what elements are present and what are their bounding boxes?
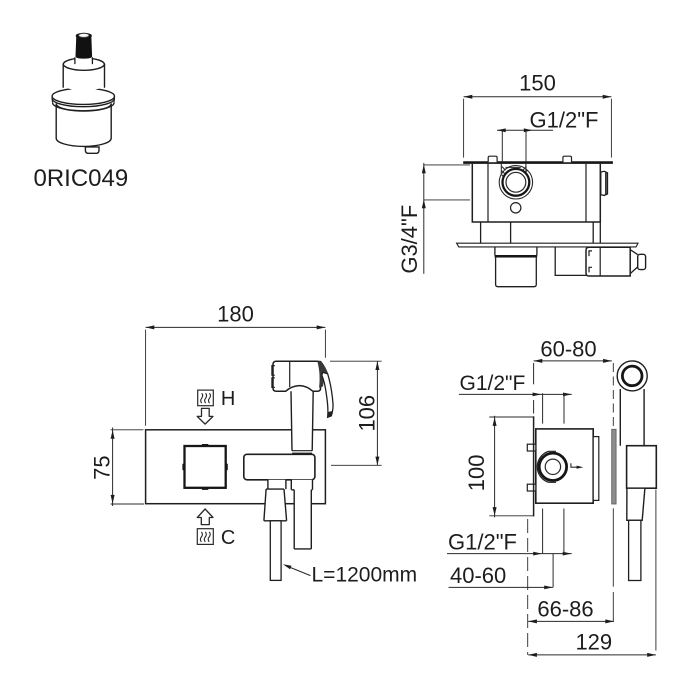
svg-text:L=1200mm: L=1200mm (312, 563, 418, 586)
handle body (top view) (586, 247, 630, 276)
top port centerlines (543, 393, 564, 423)
dim 180 dimension line (146, 326, 326, 328)
side lug (right of body) (601, 171, 608, 195)
cold icon box (197, 529, 213, 545)
svg-text:100: 100 (464, 455, 489, 492)
hot icon box (198, 390, 214, 406)
mounting plate (edge-on, top view) (463, 161, 613, 164)
cartridge seat arc (549, 451, 557, 482)
upper G1/2 leader (459, 393, 572, 395)
G1/2 port extension lines (502, 131, 526, 162)
small screw hole (511, 203, 521, 213)
sprayer handle upper (front) (291, 391, 313, 450)
holder extension line for 129 (655, 490, 657, 651)
svg-text:180: 180 (217, 302, 254, 327)
finished-wall extension line (right) (612, 363, 614, 429)
hose (side) (629, 520, 641, 580)
wall flange plate (edge-on) (457, 243, 638, 247)
valve rough-in body (side) (536, 429, 593, 503)
cartridge port ring (side) (539, 453, 566, 480)
valve body (top view) (472, 164, 600, 222)
handle cone (630, 250, 638, 274)
svg-text:0RIC049: 0RIC049 (34, 165, 129, 192)
svg-text:75: 75 (90, 455, 115, 479)
sprayer handle lower (291, 480, 312, 549)
flow arrow (571, 463, 578, 467)
hose cone (side) (627, 488, 645, 520)
mounting plate (front view) (146, 430, 326, 504)
hose (270, 521, 281, 581)
dim 180 extension lines (146, 330, 326, 426)
dim 150 extension lines (464, 99, 612, 158)
plate tab right (563, 156, 572, 162)
wall line (533, 363, 535, 384)
hose cone (264, 480, 287, 521)
port seat outline (499, 166, 532, 199)
svg-text:H: H (221, 388, 235, 410)
outlet spout (below plate) (495, 247, 537, 256)
handle end knob (638, 254, 646, 269)
dashed wall-center extension (527, 519, 529, 655)
step to handle (555, 247, 586, 276)
G3/4 dimension line + arrows (423, 163, 425, 274)
cartridge flange disc (52, 88, 114, 111)
cold arrow (up) (197, 509, 213, 525)
cartridge stem neck (75, 58, 93, 64)
svg-text:G1/2"F: G1/2"F (448, 530, 517, 555)
cartridge splined stem (black) (76, 33, 93, 59)
cartridge body (main cylinder) (56, 104, 111, 146)
cartridge bonnet cylinder (63, 59, 104, 91)
plate tab left (488, 156, 497, 162)
svg-text:G1/2"F: G1/2"F (530, 107, 599, 132)
dim 60-80 line (534, 360, 612, 362)
holder block (side) (627, 446, 657, 489)
body mounting tabs (527, 444, 536, 451)
sprayer head (side, circle) (617, 361, 647, 391)
body lower step (481, 222, 601, 243)
svg-text:106: 106 (355, 395, 380, 432)
trigger lever (322, 372, 333, 417)
port seat hatch dashes (502, 167, 528, 182)
bottom port centerlines (543, 509, 564, 554)
head clip notches (272, 366, 275, 388)
wall line (solid section) (533, 416, 535, 516)
svg-text:40-60: 40-60 (450, 563, 506, 588)
head dark side band (317, 361, 328, 388)
G1/2 port ring (503, 169, 530, 196)
escutcheon plate (gray) (612, 429, 616, 504)
sprayer handle (side) (620, 389, 644, 446)
svg-text:G3/4"F: G3/4"F (397, 205, 422, 274)
svg-text:60-80: 60-80 (540, 336, 596, 361)
G1/2 small dimension line (497, 129, 553, 131)
cartridge bottom stub (85, 147, 99, 153)
wall holder bracket (244, 454, 315, 480)
function button (square) (185, 446, 226, 488)
svg-text:66-86: 66-86 (537, 597, 593, 622)
sprayer head (front) (273, 361, 321, 391)
hot arrow (down) (197, 408, 213, 424)
svg-text:129: 129 (575, 629, 612, 654)
body inner walls (488, 164, 586, 222)
svg-text:G1/2"F: G1/2"F (460, 372, 526, 395)
valve front section (593, 437, 599, 501)
svg-text:C: C (221, 527, 235, 549)
dim 150 dimension line (464, 96, 612, 98)
svg-text:150: 150 (519, 71, 556, 96)
lower G1/2 leader (447, 553, 572, 555)
